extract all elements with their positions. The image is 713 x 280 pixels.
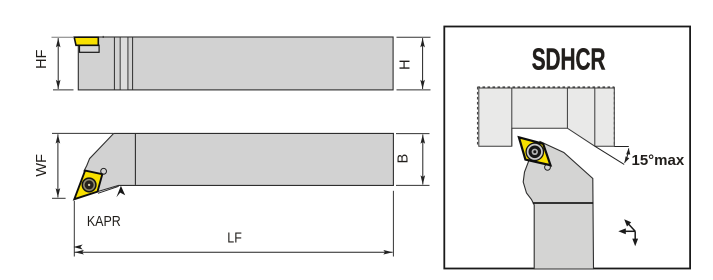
svg-text:15°max: 15°max <box>632 152 685 169</box>
H extension line bottom <box>397 89 431 91</box>
stock dashed outline top <box>478 86 615 88</box>
svg-text:B: B <box>396 154 412 164</box>
shank + head (top view) <box>84 133 393 191</box>
pocket relief hole <box>545 164 551 170</box>
insert screw body <box>529 146 542 159</box>
LF extension line left <box>73 201 75 257</box>
insert seat shim (side view) <box>80 45 100 52</box>
clamp line 3 <box>127 37 129 89</box>
head-shank junction line <box>134 134 136 185</box>
workpiece step line right <box>594 88 596 146</box>
WF extension line top <box>52 132 113 134</box>
horizontal reference line <box>614 146 629 148</box>
insert (yellow diamond) <box>519 137 551 165</box>
pocket corner tick <box>102 36 104 38</box>
WF extension line bottom <box>52 197 66 199</box>
angle arc with arrows <box>625 148 629 162</box>
feed arrow down <box>634 231 636 240</box>
workpiece step line middle <box>566 88 568 128</box>
pocket relief hole <box>101 168 107 174</box>
stock dashed outline left <box>477 87 479 145</box>
feed arrow diagonal <box>629 224 636 231</box>
svg-text:KAPR: KAPR <box>87 213 121 229</box>
workpiece machined profile <box>479 88 615 146</box>
B extension line top <box>396 133 430 135</box>
insert screw outer <box>82 178 96 192</box>
H extension line top <box>397 36 431 38</box>
workpiece step line left <box>511 88 513 146</box>
feed arrow left <box>625 230 636 232</box>
HF dimension arrow <box>57 38 59 89</box>
svg-text:H: H <box>397 59 413 69</box>
B dimension arrow <box>422 135 424 185</box>
insert screw inner <box>85 180 94 189</box>
head underside second line (KAPR wedge) <box>98 186 119 193</box>
KAPR pointer arrowhead <box>116 186 125 197</box>
insert (yellow diamond, top view) <box>74 171 102 200</box>
svg-text:LF: LF <box>227 230 242 246</box>
shank bar (side view) <box>78 37 393 90</box>
insert screw ring <box>526 143 543 160</box>
LF extension line right <box>392 191 394 257</box>
head-shank junction line <box>533 202 594 204</box>
HF extension line top <box>52 36 75 38</box>
svg-text:WF: WF <box>34 154 50 177</box>
svg-text:SDHCR: SDHCR <box>532 41 606 76</box>
insert screw face <box>532 149 538 155</box>
H dimension arrow <box>422 38 424 89</box>
clamp line 4 <box>132 37 134 89</box>
insert screw center dot <box>88 184 90 186</box>
LF dimension arrow <box>75 251 393 253</box>
B extension line bottom <box>396 184 430 186</box>
extra arrowhead at insert tip datum <box>73 245 82 250</box>
panel border <box>444 27 690 269</box>
stock dashed outline right <box>613 87 615 146</box>
insert screw center <box>533 150 536 153</box>
HF extension line bottom <box>53 89 74 91</box>
svg-text:HF: HF <box>34 49 50 68</box>
chamfer extension line <box>595 146 624 164</box>
clamp line 1 <box>113 37 115 89</box>
tool head and shank <box>523 142 593 270</box>
polished band on shank <box>121 38 128 90</box>
WF dimension arrow <box>57 134 59 197</box>
clamp line 2 <box>119 37 121 89</box>
insert (yellow, side view) <box>74 37 98 45</box>
